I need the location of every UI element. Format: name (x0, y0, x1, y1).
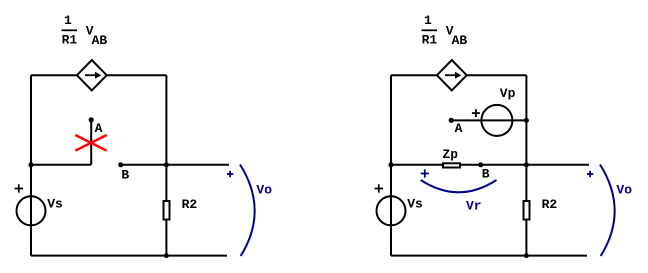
junction mid-right (164, 162, 169, 167)
wire mid horizontal (right) (391, 164, 589, 166)
voltage source Vs circle (17, 196, 46, 225)
svg-text:AB: AB (452, 33, 468, 48)
svg-text:Vo: Vo (616, 182, 632, 197)
Vo bracket arc (right) (600, 165, 615, 257)
Vo plus sign (blue) (227, 171, 233, 177)
wire bottom horizontal (right) (391, 255, 587, 257)
Vr bracket arc (421, 180, 497, 192)
node A dot (right) (449, 118, 454, 123)
node B dot (right) (478, 162, 483, 167)
junction mid-right (right) (524, 162, 529, 167)
svg-text:R2: R2 (182, 197, 198, 212)
Vo bracket arc (240, 165, 255, 257)
wire left vertical (right) (390, 75, 392, 255)
wire mid-right horizontal from node B (121, 164, 229, 166)
svg-text:Zp: Zp (442, 147, 458, 162)
wire left vertical (30, 75, 32, 255)
svg-text:R2: R2 (542, 197, 558, 212)
svg-text:AB: AB (92, 33, 108, 48)
svg-text:Vp: Vp (500, 86, 516, 101)
wire right vertical (165, 75, 167, 255)
svg-text:B: B (121, 167, 129, 182)
junction bottom-right (right) (524, 253, 529, 258)
wire mid-left horizontal (31, 164, 91, 166)
svg-text:Vs: Vs (47, 197, 63, 212)
svg-text:1: 1 (64, 13, 72, 28)
dependent current source U2 diamond (right) (437, 60, 467, 90)
junction Vp-right wire (524, 118, 529, 123)
Vs plus sign (15, 184, 23, 192)
red X open-circuit mark (75, 135, 106, 151)
Vs plus sign (right) (375, 184, 383, 192)
dependent current source U1 diamond (77, 60, 107, 90)
wire from node A to Vp (451, 119, 526, 121)
wire top horizontal (31, 74, 166, 76)
resistor R2 body (164, 201, 170, 220)
node B dot (118, 162, 123, 167)
resistor R2 body (right) (524, 201, 530, 220)
gain label fraction bar (62, 29, 78, 31)
wire stub up to node A (90, 120, 92, 165)
node A dot (89, 117, 94, 122)
wire top horizontal (right) (391, 74, 526, 76)
gain label fraction bar (right) (422, 29, 438, 31)
impedance Zp body (443, 163, 460, 167)
junction bottom-right (164, 253, 169, 258)
svg-text:A: A (455, 121, 463, 136)
junction mid-left (right) (389, 162, 394, 167)
Vo plus sign (blue, right) (587, 171, 593, 177)
svg-text:Vo: Vo (256, 182, 272, 197)
svg-text:1: 1 (424, 13, 432, 28)
voltage source Vs circle (right) (377, 196, 406, 225)
svg-text:Vs: Vs (407, 197, 423, 212)
Vr plus sign (blue) (421, 169, 429, 177)
svg-text:Vr: Vr (466, 199, 482, 214)
svg-text:R1: R1 (62, 33, 78, 48)
wire bottom horizontal (31, 255, 227, 257)
junction mid-left (29, 162, 34, 167)
svg-text:R1: R1 (422, 33, 438, 48)
svg-text:B: B (482, 166, 490, 181)
Vp plus sign (472, 109, 480, 117)
wire right vertical (right) (525, 75, 527, 255)
voltage source Vp circle (481, 105, 512, 136)
svg-text:A: A (95, 121, 103, 136)
